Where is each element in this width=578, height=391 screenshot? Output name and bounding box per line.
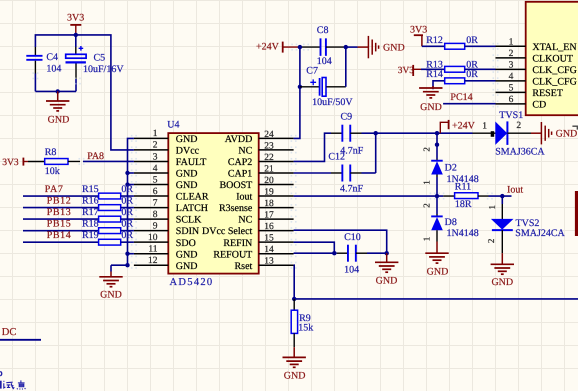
diode D2 1N4148 (422, 133, 479, 196)
TVS TVS1 SMAJ36CA (482, 110, 545, 158)
wire pin13 down to R9 node (293, 265, 296, 299)
svg-text:6: 6 (509, 95, 514, 105)
svg-text:1: 1 (153, 129, 158, 139)
svg-text:13: 13 (264, 257, 274, 267)
svg-text:GND: GND (176, 180, 198, 191)
svg-text:U4: U4 (167, 119, 179, 130)
resistor R12 0R (422, 35, 496, 49)
capacitor C5 polarized 10uF/16V (66, 35, 125, 92)
U4 pin 4 GND (131, 164, 198, 180)
U4 pin 23 NC (238, 141, 296, 156)
top-right chip pin 3 CLK_CFG (493, 61, 577, 76)
svg-text:R11: R11 (455, 181, 471, 192)
svg-text:1: 1 (482, 122, 487, 132)
wire +24V rail to TVS1 (376, 132, 496, 134)
TVS TVS2 SMAJ24CA (486, 196, 565, 253)
svg-text:9: 9 (153, 221, 158, 231)
wire fragment below DC (0, 339, 41, 341)
svg-text:15: 15 (264, 234, 274, 244)
U4 pin 11 GND (131, 245, 198, 261)
net label PC14 wire to pin 6 (443, 92, 495, 104)
ground GND U4 left (99, 265, 122, 300)
svg-text:22: 22 (264, 153, 274, 163)
resistor R9 15k (291, 299, 313, 347)
svg-text:1: 1 (422, 237, 432, 242)
power port +24V top (256, 42, 300, 53)
ground GND D8 (425, 242, 448, 278)
wire Iout row pin 19 (294, 195, 444, 197)
U4 pin 14 REFOUT (213, 245, 296, 260)
power port 3V3 R12 (410, 25, 427, 47)
svg-text:GND: GND (48, 114, 70, 125)
svg-text:1N4148: 1N4148 (447, 228, 479, 239)
U4 pin 9 SDIN (131, 221, 199, 237)
net label PA8 (87, 151, 104, 162)
svg-text:10uF/16V: 10uF/16V (83, 64, 124, 75)
U4 pin 19 Iout (236, 187, 296, 202)
svg-text:C8: C8 (317, 25, 329, 36)
junction C8/C7 nodes (291, 44, 348, 89)
svg-text:10uF/50V: 10uF/50V (312, 97, 353, 108)
svg-text:D2: D2 (445, 163, 457, 174)
svg-text:PB15: PB15 (47, 219, 72, 230)
svg-text:R8: R8 (45, 147, 57, 158)
svg-text:CLK_CFG: CLK_CFG (532, 76, 576, 87)
svg-text:CLEAR: CLEAR (176, 192, 209, 203)
svg-text:AVDD: AVDD (225, 134, 253, 145)
top-right chip pin 2 CLKOUT (493, 49, 573, 64)
svg-text:R19: R19 (82, 230, 99, 241)
junction R9 node (292, 297, 296, 301)
capacitor C8 104 (300, 25, 346, 67)
svg-text:104: 104 (46, 64, 61, 75)
diode D8 1N4148 (422, 196, 479, 241)
svg-text:GND: GND (427, 267, 449, 278)
svg-text:3V3: 3V3 (410, 25, 427, 36)
svg-text:0R: 0R (121, 195, 133, 206)
net label DC fragment (left edge) (2, 327, 17, 338)
svg-text:PB14: PB14 (47, 230, 72, 241)
svg-text:2: 2 (516, 121, 521, 131)
svg-text:CLK_CFG: CLK_CFG (532, 65, 576, 76)
U4 pin 12 GND (131, 256, 198, 272)
svg-text:GND: GND (176, 169, 198, 180)
IC U4 AD5420 body (168, 133, 258, 274)
svg-text:2: 2 (153, 141, 158, 151)
svg-text:14: 14 (264, 245, 274, 255)
U4 pin 17 NC (238, 211, 296, 226)
svg-text:CLKOUT: CLKOUT (532, 53, 573, 64)
svg-text:NC: NC (238, 215, 252, 226)
svg-text:AD5420: AD5420 (170, 277, 214, 288)
ground GND sideways (C8) (368, 36, 404, 58)
capacitor C4 104 (26, 47, 61, 91)
svg-text:18: 18 (264, 199, 274, 209)
svg-text:PA8: PA8 (87, 151, 104, 162)
svg-text:12: 12 (148, 256, 158, 266)
junction C9 right (374, 131, 378, 135)
U4 pin 10 SDO (131, 233, 196, 249)
svg-text:R3sense: R3sense (219, 203, 253, 214)
svg-text:0R: 0R (121, 219, 133, 230)
svg-text:C10: C10 (344, 232, 361, 243)
svg-text:PB12: PB12 (47, 195, 72, 206)
svg-text:3: 3 (509, 61, 514, 71)
svg-text:TVS1: TVS1 (499, 110, 523, 121)
svg-text:0R: 0R (466, 69, 478, 80)
svg-text:REFOUT: REFOUT (213, 249, 252, 260)
capacitor C7 polarized 10uF/50V (300, 66, 354, 109)
svg-text:PB13: PB13 (47, 207, 72, 218)
svg-text:0R: 0R (466, 35, 478, 46)
svg-text:5: 5 (153, 175, 158, 185)
svg-text:1: 1 (509, 38, 514, 48)
svg-text:3V3: 3V3 (2, 157, 19, 168)
power port 3V3 R13 (398, 65, 421, 76)
junction Iout (500, 194, 504, 198)
capacitor C10 104 (294, 232, 387, 276)
svg-text:DC: DC (2, 327, 17, 338)
svg-text:0R: 0R (121, 207, 133, 218)
resistor R11 18R (443, 181, 478, 210)
designator U4 (167, 119, 179, 130)
power port 3V3 R8 (2, 157, 28, 168)
svg-text:104: 104 (344, 265, 359, 276)
U4 pin 21 CAP1 (228, 164, 297, 179)
svg-text:C12: C12 (328, 152, 345, 163)
junction D2/Iout (430, 193, 445, 200)
junction bottom rail GND tap (56, 89, 60, 93)
svg-text:GND: GND (376, 276, 398, 287)
U4 pin 6 CLEAR (131, 187, 209, 203)
svg-text:GND: GND (284, 371, 306, 382)
component fragment (right edge bar) (575, 191, 578, 236)
wire R11 to Iout node (478, 193, 512, 200)
junction +24V/D2 taps (435, 131, 439, 147)
capacitor C9 4.7nF (294, 112, 376, 162)
capacitor C12 4.7nF (294, 152, 376, 195)
U4 pin 3 FAULT (131, 152, 206, 168)
svg-text:SDIN: SDIN (176, 226, 199, 237)
svg-text:3: 3 (153, 152, 158, 162)
svg-text:4.7nF: 4.7nF (340, 183, 364, 194)
svg-text:18R: 18R (455, 199, 472, 210)
resistor R14 0R to GND (426, 69, 495, 89)
wire GND bus left (111, 138, 134, 265)
top-right chip pin 5 RESET (493, 84, 563, 99)
svg-text:CD: CD (532, 100, 546, 111)
U4 pin 15 REFIN (223, 234, 296, 249)
ground GND R9 (283, 347, 306, 381)
svg-text:8: 8 (153, 210, 158, 220)
U4 pin 20 BOOST (220, 176, 297, 191)
resistor R19 0R net PB14 (23, 230, 134, 245)
svg-text:19: 19 (264, 187, 274, 197)
svg-text:C7: C7 (306, 66, 318, 77)
svg-text:GND: GND (383, 43, 405, 54)
svg-text:FAULT: FAULT (176, 157, 207, 168)
U4 pin 7 LATCH (131, 198, 208, 214)
svg-text:DVcc: DVcc (176, 146, 200, 157)
resistor R15 0R net PA7 (23, 184, 134, 199)
svg-text:17: 17 (264, 211, 274, 221)
resistor R17 0R net PB13 (23, 207, 134, 222)
svg-text:11: 11 (148, 245, 157, 255)
svg-text:4: 4 (509, 72, 514, 82)
wire R8 to U4 pin 3 (68, 158, 134, 165)
svg-text:PA7: PA7 (45, 184, 64, 195)
ground GND TVS2 (491, 253, 514, 288)
text fragment test-point (bottom left, CJK approx) (0, 372, 25, 390)
wire C7 right to C8 right (345, 47, 347, 87)
svg-text:1: 1 (422, 180, 432, 185)
svg-text:CAP1: CAP1 (228, 169, 252, 180)
wire C8 to GND (346, 46, 369, 48)
svg-text:2: 2 (422, 147, 432, 152)
svg-text:GND: GND (176, 261, 198, 272)
svg-text:+24V: +24V (452, 121, 476, 132)
svg-text:10k: 10k (45, 166, 60, 177)
svg-text:SCLK: SCLK (176, 215, 202, 226)
svg-text:+24V: +24V (256, 42, 280, 53)
svg-text:SDO: SDO (176, 238, 196, 249)
svg-text:10: 10 (148, 233, 158, 243)
U4 pin 22 CAP2 (228, 153, 297, 168)
svg-text:RESET: RESET (532, 88, 563, 99)
IC top-right partial (526, 2, 578, 115)
power port +24V at TVS1 (440, 120, 475, 133)
wire C9/C12 right riser (375, 133, 377, 173)
svg-text:3V3: 3V3 (67, 13, 84, 24)
svg-text:7: 7 (153, 198, 158, 208)
value label AD5420 (170, 277, 214, 288)
svg-text:R14: R14 (426, 69, 443, 80)
svg-text:R15: R15 (82, 184, 99, 195)
svg-text:GND: GND (420, 102, 442, 113)
power port 3V3 top-left (67, 13, 84, 35)
top-right chip pin 6 CD (493, 95, 547, 110)
svg-text:16: 16 (264, 222, 274, 232)
svg-text:D8: D8 (445, 217, 457, 228)
svg-text:NC: NC (238, 146, 252, 157)
svg-text:GND: GND (556, 128, 578, 139)
svg-text:LATCH: LATCH (176, 203, 208, 214)
svg-text:15k: 15k (298, 322, 313, 333)
svg-text:SMAJ36CA: SMAJ36CA (495, 147, 545, 158)
svg-text:3V3: 3V3 (398, 66, 414, 76)
junction GND bus dots (125, 171, 129, 268)
junction 3V3/C5 node (74, 33, 78, 37)
svg-text:4: 4 (153, 164, 158, 174)
U4 pin 1 GND (131, 129, 198, 145)
U4 pin 13 Rset (235, 257, 297, 272)
junction C10 taps (332, 251, 389, 255)
svg-text:0R: 0R (121, 230, 133, 241)
svg-text:R17: R17 (82, 207, 99, 218)
ground GND C4/C5 (46, 91, 69, 125)
svg-text:2: 2 (509, 49, 514, 59)
resistor R13 0R (421, 60, 496, 73)
svg-text:PC14: PC14 (450, 92, 472, 103)
wire +24V down to U4 pin 24 (294, 47, 300, 138)
wire top rail and drop to U4 pin 2 (35, 35, 133, 150)
svg-text:BOOST: BOOST (220, 180, 253, 191)
top-right chip pin 1 XTAL_EN (493, 38, 577, 53)
svg-text:XTAL_EN: XTAL_EN (532, 42, 576, 53)
svg-text:21: 21 (264, 164, 274, 174)
wire pin16 to C10 right/GND (294, 230, 387, 253)
U4 pin 8 SCLK (131, 210, 202, 226)
wire long output rail (294, 298, 578, 300)
ground GND C10 (375, 253, 398, 286)
svg-text:104: 104 (317, 56, 332, 67)
ground GND sideways (TVS1) (541, 122, 577, 144)
svg-text:1: 1 (487, 205, 497, 210)
U4 pin 5 GND (131, 175, 198, 191)
svg-text:CAP2: CAP2 (228, 157, 252, 168)
svg-text:5: 5 (509, 84, 514, 94)
resistor R8 10k (28, 147, 68, 177)
svg-text:23: 23 (264, 141, 274, 151)
ground GND R14 (419, 86, 442, 113)
svg-text:2: 2 (422, 203, 432, 208)
svg-text:GND: GND (176, 249, 198, 260)
svg-text:DVcc Select: DVcc Select (202, 226, 252, 237)
svg-text:2: 2 (486, 239, 496, 244)
svg-text:6: 6 (153, 187, 158, 197)
net label Iout (507, 184, 523, 195)
svg-text:Iout: Iout (507, 184, 523, 195)
svg-text:20: 20 (264, 176, 274, 186)
svg-text:GND: GND (491, 277, 513, 288)
svg-text:C5: C5 (94, 53, 106, 64)
svg-text:24: 24 (264, 130, 274, 140)
wire pin15 jog to pin14 row (294, 242, 335, 253)
resistor R18 0R net PB15 (23, 219, 134, 234)
svg-text:0R: 0R (121, 184, 133, 195)
U4 pin 16 DVcc Select (202, 222, 297, 237)
U4 pin 24 AVDD (225, 130, 297, 145)
svg-text:REFIN: REFIN (223, 238, 252, 249)
U4 pin 2 DVcc (131, 141, 200, 157)
svg-text:R16: R16 (82, 195, 99, 206)
top-right chip pin 4 CLK_CFG (493, 72, 577, 87)
svg-text:R12: R12 (426, 35, 443, 46)
resistor R16 0R net PB12 (23, 195, 134, 210)
svg-text:Iout: Iout (236, 192, 252, 203)
wire C4-C5 bottom rail (35, 90, 76, 92)
U4 pin 18 R3sense (219, 199, 297, 214)
svg-text:C4: C4 (46, 52, 58, 63)
svg-text:SMAJ24CA: SMAJ24CA (515, 228, 565, 239)
svg-text:Rset: Rset (235, 261, 253, 272)
svg-text:GND: GND (176, 134, 198, 145)
svg-text:C9: C9 (341, 112, 353, 123)
svg-text:R18: R18 (82, 219, 99, 230)
svg-text:GND: GND (100, 290, 122, 301)
